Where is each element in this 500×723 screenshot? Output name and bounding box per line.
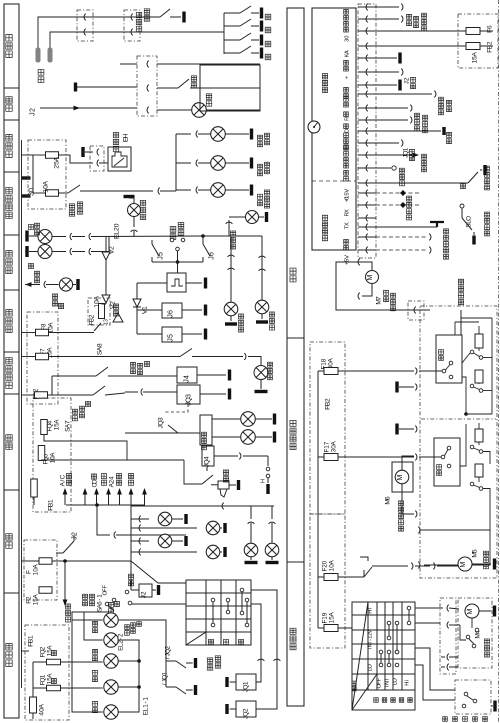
wiper park switch bbox=[466, 635, 470, 639]
wire reverse lamp bbox=[25, 282, 32, 287]
section label 刮水器 bbox=[290, 644, 296, 650]
svg-text:3: 3 bbox=[157, 417, 164, 421]
label 顶灯 bbox=[206, 101, 211, 106]
fuse hazard 13 bbox=[99, 304, 105, 319]
lamp 前雾灯2 bbox=[212, 436, 241, 438]
svg-text:A: A bbox=[42, 180, 49, 185]
connector X1a 安全带 bbox=[77, 10, 93, 41]
switch 后雾灯开关 blade bbox=[180, 349, 192, 357]
lamp 左近 bbox=[93, 628, 98, 633]
wire JQ4 right bbox=[214, 455, 238, 457]
wire 安全带 wire2 bbox=[50, 32, 224, 48]
diode V2 bbox=[102, 252, 110, 260]
wire 档位器1 bbox=[376, 107, 408, 109]
svg-text:A: A bbox=[38, 703, 45, 708]
connector X3 点烟器 bbox=[90, 146, 104, 171]
svg-text:V: V bbox=[344, 189, 350, 193]
section label 前后雾灯 bbox=[6, 382, 12, 388]
label 开关 bbox=[66, 480, 71, 485]
wire relay contact1 bbox=[447, 654, 449, 661]
fuse 15A top bbox=[376, 45, 466, 47]
label 刮水器 box bbox=[484, 652, 489, 657]
fuse 40A bbox=[30, 697, 37, 713]
svg-text:0: 0 bbox=[113, 223, 120, 227]
wire 转向开关1 bbox=[376, 6, 399, 8]
pin contact y183 bbox=[358, 182, 376, 184]
fusebox FB2 window frame bbox=[310, 342, 345, 514]
svg-text:F: F bbox=[102, 585, 108, 589]
svg-text:/: / bbox=[164, 657, 171, 659]
meter symbol bbox=[308, 121, 320, 133]
lamp 右近 bbox=[93, 656, 98, 661]
connector window bbox=[408, 301, 424, 320]
svg-text:O: O bbox=[465, 216, 472, 221]
connector strip 仪表插接器 bbox=[358, 4, 376, 258]
svg-text:3: 3 bbox=[103, 319, 109, 322]
grounds window rows bbox=[395, 382, 398, 393]
svg-text:2: 2 bbox=[27, 108, 36, 112]
svg-text:1: 1 bbox=[27, 635, 34, 639]
wire head right vertical2 bbox=[118, 620, 166, 687]
switch J5 blade bbox=[151, 240, 153, 244]
section label 转向灯 bbox=[6, 267, 12, 273]
svg-text:2: 2 bbox=[140, 591, 147, 595]
wire J2 触点 bbox=[376, 71, 399, 73]
relay J4 bbox=[177, 367, 197, 383]
motor M4 box bbox=[458, 598, 492, 668]
svg-text:A: A bbox=[328, 560, 335, 565]
wire rear fog bbox=[192, 356, 243, 358]
wire rail stub F8 bbox=[22, 332, 36, 334]
lamp 位灯3 bbox=[131, 540, 149, 542]
wire main supply rail 30 bbox=[21, 140, 23, 688]
relay coil J6 bbox=[162, 303, 182, 318]
svg-text:5: 5 bbox=[167, 334, 174, 338]
label 转向开关 bbox=[170, 234, 176, 240]
junction accessory bbox=[95, 503, 99, 507]
motor M6 box bbox=[392, 462, 413, 492]
svg-text:0: 0 bbox=[321, 560, 328, 564]
table contacts col 下 bbox=[240, 588, 244, 592]
svg-text:2: 2 bbox=[164, 645, 171, 649]
svg-text:2: 2 bbox=[71, 532, 78, 536]
label 制动开关 bbox=[69, 211, 74, 216]
svg-text:4: 4 bbox=[203, 456, 210, 460]
label 点烟器 EH bbox=[113, 146, 118, 151]
pin contact y250 bbox=[358, 249, 376, 251]
pin contact y168 bbox=[358, 167, 376, 169]
section label 安全带 bbox=[6, 51, 12, 57]
connector wiper bbox=[440, 598, 456, 674]
svg-text:0: 0 bbox=[344, 197, 350, 200]
label 前照灯 bbox=[109, 609, 114, 614]
terminal 30 bar2 bbox=[22, 194, 31, 197]
resistor R1 bbox=[475, 334, 483, 348]
svg-text:H: H bbox=[122, 134, 129, 139]
section label 点烟器 bbox=[6, 151, 12, 157]
switch blade upper bbox=[478, 348, 480, 351]
band divider above 前照灯 bbox=[4, 592, 19, 594]
band divider 刮水器 bbox=[287, 561, 304, 563]
wire washer out bbox=[372, 565, 408, 567]
wire accessory arrow bbox=[119, 494, 121, 505]
label 刮水继电器 bbox=[443, 717, 448, 722]
ground lighter bbox=[81, 147, 84, 157]
fusebox FB2 fog frame bbox=[27, 312, 58, 404]
fuse FB1 feed bbox=[31, 479, 38, 497]
svg-text:M: M bbox=[460, 561, 467, 567]
wire window supply rail bbox=[317, 371, 319, 628]
svg-text:O: O bbox=[392, 678, 398, 683]
svg-text:8: 8 bbox=[320, 358, 327, 362]
lamp 位灯1 bbox=[131, 518, 149, 520]
svg-text:O: O bbox=[367, 664, 373, 669]
fuse 10A bbox=[46, 190, 59, 197]
svg-text:8: 8 bbox=[40, 323, 47, 327]
svg-text:A: A bbox=[53, 156, 60, 161]
diode V1 bbox=[136, 292, 138, 299]
wires 仪表通信 bbox=[376, 192, 420, 194]
pin contact y218 bbox=[358, 217, 376, 219]
fusebox FB2 hazard frame bbox=[88, 298, 110, 325]
section label 喇叭 bbox=[6, 443, 12, 449]
switch hazard 开关 bbox=[113, 311, 118, 316]
label 数字信号 bbox=[322, 235, 327, 240]
pin contact y237 bbox=[358, 236, 376, 238]
switch 制动开关 bbox=[59, 192, 69, 194]
svg-text:5: 5 bbox=[471, 549, 478, 553]
svg-text:1: 1 bbox=[141, 306, 148, 310]
lamp 高位制动灯 bbox=[211, 183, 226, 198]
band divider above 点烟器 bbox=[4, 119, 19, 121]
section label 电动车窗 bbox=[290, 444, 296, 450]
switch SA8 blade bbox=[94, 323, 101, 331]
wire brake bus bbox=[160, 190, 176, 192]
svg-text:2: 2 bbox=[25, 596, 32, 600]
relay JQ1 bbox=[236, 674, 256, 690]
pin contact y227 bbox=[358, 226, 376, 228]
band divider above 喇叭 bbox=[4, 393, 19, 395]
wire accessory arrow bbox=[130, 494, 132, 505]
lamp 位灯4 bbox=[131, 551, 197, 553]
svg-text:6: 6 bbox=[384, 496, 391, 500]
wire rail stub head bbox=[22, 650, 30, 652]
horn 喇叭 bbox=[223, 477, 228, 482]
domelight unit box bbox=[200, 65, 260, 111]
ground pin y85 bbox=[376, 84, 397, 86]
wire JQ3 dashed bbox=[163, 404, 188, 412]
wire brake row2 bbox=[176, 162, 191, 164]
wire F17 to switch bbox=[419, 456, 441, 458]
switch 安全带开关 bbox=[160, 9, 170, 17]
switch blade lower2 bbox=[470, 482, 474, 486]
instrument box 仪表 bbox=[312, 8, 356, 250]
svg-text:1: 1 bbox=[242, 681, 249, 685]
lamp 后右转 bbox=[224, 302, 238, 316]
wire to JQ3 bbox=[125, 391, 138, 393]
wire window riser bbox=[460, 310, 462, 335]
switch door 左4 bbox=[224, 52, 240, 54]
label 开关 domelight bbox=[191, 83, 196, 88]
wire accessory drop bbox=[97, 505, 110, 535]
svg-text:M: M bbox=[367, 274, 374, 280]
wire turn bus bbox=[91, 251, 109, 253]
relay coil J5 bbox=[162, 327, 182, 342]
relay box 刮水继电器 bbox=[455, 680, 491, 714]
section label 制动车灯 bbox=[6, 212, 12, 218]
wire inner rail right bbox=[491, 318, 493, 414]
pin 仪表 pin1 bbox=[36, 48, 41, 63]
ground flasher bbox=[124, 195, 135, 198]
svg-text:9: 9 bbox=[321, 612, 328, 616]
wire wiper feed bbox=[338, 627, 352, 629]
fuse fog feed bbox=[35, 392, 48, 399]
section label 顶灯 bbox=[6, 105, 12, 111]
fusebox 30 frame bbox=[28, 140, 66, 209]
svg-text:+: + bbox=[344, 75, 350, 79]
wire 去转助 arrow bbox=[64, 561, 66, 600]
wire JQ1 触点 bbox=[376, 142, 399, 144]
svg-text:-: - bbox=[142, 701, 149, 703]
sensor T 车速 bbox=[430, 222, 444, 227]
box 前雾灯 bbox=[200, 415, 212, 445]
switch door 右1 bbox=[224, 12, 240, 14]
lamp 倒车灯 bbox=[59, 278, 72, 291]
table contacts wiper bbox=[407, 606, 411, 610]
table 前刮水开关 bbox=[352, 602, 415, 710]
svg-text:1: 1 bbox=[39, 674, 46, 678]
junction window bbox=[464, 412, 468, 416]
wire turn right branch bbox=[203, 235, 262, 237]
wire wiper row2 bbox=[415, 622, 440, 624]
wires window bottom contacts bbox=[420, 529, 440, 531]
pin contact y58 bbox=[358, 57, 376, 59]
label 灯光开关 SA6-1 bbox=[82, 601, 87, 606]
pin contact y143 bbox=[358, 142, 376, 144]
pin contact y108 bbox=[358, 107, 376, 109]
svg-text:D: D bbox=[91, 479, 98, 484]
label 仪表 bbox=[101, 480, 106, 485]
wires window interior upper bbox=[462, 377, 466, 414]
svg-text:0: 0 bbox=[344, 36, 350, 39]
motor M6 bbox=[395, 470, 409, 484]
pin contact y193 bbox=[358, 192, 376, 194]
wire brake feed bbox=[80, 190, 153, 192]
label 电窗开关 bbox=[458, 299, 463, 304]
wire fog feed bbox=[48, 394, 53, 396]
svg-text:X: X bbox=[344, 209, 350, 213]
label 后雾灯 bbox=[322, 87, 327, 92]
ground 安全带开关 bbox=[182, 12, 185, 23]
table contacts col 中 bbox=[226, 598, 230, 602]
window box divider bbox=[421, 418, 496, 420]
wire SA6 out bbox=[132, 603, 186, 605]
svg-text:-: - bbox=[96, 598, 103, 600]
relay EH 点烟器 bbox=[108, 147, 131, 171]
svg-text:A: A bbox=[32, 594, 39, 599]
resistor R4 bbox=[475, 464, 483, 477]
pin contact y205 bbox=[358, 204, 376, 206]
wires 车速传感器 bbox=[376, 236, 428, 238]
lamp 后雾灯 bbox=[254, 366, 268, 380]
svg-text:H: H bbox=[404, 682, 410, 686]
fusebox FB1 head frame bbox=[25, 625, 69, 720]
switch door 右3 bbox=[224, 39, 240, 41]
band divider 电动车窗 bbox=[287, 337, 304, 339]
wire fuse feed rail bbox=[33, 154, 46, 156]
switch JQ3 blade bbox=[168, 425, 178, 433]
wire head fuse rail bbox=[32, 662, 34, 697]
fusebox FB2 top frame bbox=[458, 14, 498, 68]
section label 位灯 bbox=[6, 542, 12, 548]
section label 倒车灯 bbox=[6, 326, 12, 332]
wire 转向开关2 bbox=[376, 18, 399, 20]
svg-text:2: 2 bbox=[242, 708, 249, 712]
switch blade lower bbox=[470, 445, 474, 449]
wire 档位器2 bbox=[376, 119, 408, 121]
svg-text:/: / bbox=[161, 683, 168, 685]
window switch box frame bbox=[420, 306, 497, 578]
label 安全带开关 bbox=[136, 26, 141, 31]
svg-text:6: 6 bbox=[208, 252, 215, 256]
svg-text:A: A bbox=[330, 441, 337, 446]
pin contact y94 bbox=[358, 93, 376, 95]
lamp 右远 bbox=[93, 708, 98, 713]
wire position feed bbox=[52, 560, 131, 562]
svg-text:7: 7 bbox=[323, 441, 330, 445]
wire front right turn down bbox=[261, 236, 263, 300]
wire head feed verticals bbox=[72, 612, 109, 712]
svg-text:F: F bbox=[25, 570, 32, 574]
svg-text:6: 6 bbox=[167, 310, 174, 314]
wire horn bus drop bbox=[184, 460, 202, 484]
svg-text:0: 0 bbox=[28, 188, 35, 192]
relay JQ4 bbox=[202, 446, 214, 466]
lamp 左制动灯 bbox=[211, 156, 226, 171]
svg-text:2: 2 bbox=[403, 77, 410, 81]
svg-text:A: A bbox=[328, 612, 335, 617]
label 顶灯 bbox=[128, 480, 133, 485]
wire head right bus bbox=[118, 640, 139, 712]
connector X2 顶灯 bbox=[137, 56, 157, 116]
wire rail stub F10A bbox=[22, 560, 40, 562]
wire dimmer out1 bbox=[251, 604, 261, 682]
wire rail stub fog bbox=[22, 394, 35, 396]
switch fog2 bbox=[52, 394, 93, 396]
section label 前照灯 bbox=[6, 660, 12, 666]
label 开关 bbox=[116, 480, 121, 485]
wire accessory arrow bbox=[84, 494, 86, 505]
switch fog1 bbox=[52, 375, 96, 377]
pin contact y131 bbox=[358, 130, 376, 132]
svg-text:5: 5 bbox=[157, 252, 164, 256]
band divider above 前后雾灯 bbox=[4, 351, 19, 353]
svg-text:1: 1 bbox=[161, 671, 168, 675]
table headers bbox=[208, 639, 213, 644]
pin contact y31 bbox=[358, 30, 376, 32]
svg-text:X: X bbox=[344, 222, 350, 226]
connector X1b 安全带 bbox=[124, 10, 140, 41]
wire 转助器 bbox=[376, 154, 412, 156]
svg-text:F: F bbox=[376, 678, 382, 682]
svg-text:1: 1 bbox=[402, 147, 409, 151]
switch horn door bbox=[267, 456, 269, 466]
svg-text:1: 1 bbox=[47, 499, 54, 503]
svg-text:i: i bbox=[404, 680, 410, 681]
svg-text:C: C bbox=[59, 474, 66, 479]
band divider above 转向灯 bbox=[4, 234, 19, 236]
wire J2 bbox=[40, 107, 137, 109]
svg-text:T: T bbox=[384, 678, 390, 682]
wire accessory arrow bbox=[96, 494, 98, 505]
sheet border bbox=[498, 0, 500, 723]
lamp 远光指示灯 EL2-2 bbox=[104, 613, 118, 627]
svg-text:8: 8 bbox=[96, 343, 103, 347]
wire 安全带 wire1 bbox=[38, 17, 160, 48]
switch J6 blade bbox=[202, 236, 204, 244]
svg-text:A: A bbox=[471, 52, 478, 57]
band divider above 倒车灯 bbox=[4, 289, 19, 291]
wire accessory bus bbox=[66, 504, 145, 506]
wire dimmer out2 bbox=[251, 590, 277, 709]
wire accessory arrow bbox=[64, 494, 66, 505]
wire right turn down bbox=[230, 236, 232, 302]
lamp 前雾灯1 bbox=[212, 418, 241, 420]
section label 仪表 bbox=[290, 276, 296, 282]
box 右窗 bbox=[436, 335, 462, 383]
svg-text:7: 7 bbox=[375, 296, 382, 300]
lamp 左远 bbox=[93, 677, 98, 682]
band divider above 位灯 bbox=[4, 489, 19, 491]
svg-text:A: A bbox=[344, 50, 350, 54]
relay JQ2 bbox=[236, 701, 256, 717]
band divider above 顶灯 bbox=[4, 87, 19, 89]
wire relay ground bbox=[491, 705, 493, 707]
flasher 闪光器 EL20 bbox=[129, 197, 134, 199]
svg-text:7: 7 bbox=[39, 348, 46, 352]
fuse 25A bbox=[46, 152, 59, 159]
relay 转向继电器 bbox=[167, 273, 186, 292]
svg-text:2: 2 bbox=[486, 41, 493, 45]
pin contact y72 bbox=[358, 71, 376, 73]
switch washer bbox=[360, 557, 368, 561]
svg-text:D: D bbox=[344, 129, 350, 133]
switch 转向开关 contacts bbox=[170, 238, 174, 242]
wire rail stub lighter bbox=[22, 154, 34, 156]
label 后雾灯开关 bbox=[131, 369, 136, 374]
relay J2 small bbox=[139, 584, 152, 597]
table diagonals bbox=[352, 674, 377, 710]
pin contact y7 bbox=[358, 6, 376, 8]
wire wiper row1 bbox=[415, 607, 443, 609]
wire rail stub FQ4 bbox=[22, 426, 41, 428]
band divider above 制动车灯 bbox=[4, 171, 19, 173]
label 变光开关 bbox=[207, 665, 212, 670]
wire accessory arrow bbox=[144, 494, 146, 505]
lamp 前左转 bbox=[25, 231, 28, 242]
wire horn blade bbox=[202, 475, 213, 484]
svg-text:V: V bbox=[344, 255, 350, 259]
motor M7 bbox=[366, 271, 379, 284]
pin contact y85 bbox=[358, 84, 376, 86]
lamp 前右转 bbox=[255, 300, 269, 314]
table contacts col 上 bbox=[211, 598, 215, 602]
label 小灯 bbox=[128, 581, 133, 586]
wire door switch rail bbox=[223, 13, 225, 54]
lamp 顶灯 bbox=[157, 109, 192, 111]
wire M7 rail bbox=[336, 262, 430, 310]
motor M4 bbox=[465, 604, 479, 618]
